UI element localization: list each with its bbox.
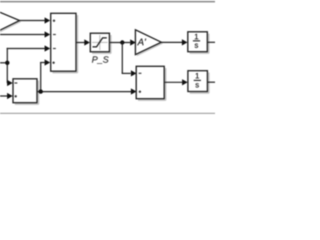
wire from left edge to Sum1 input 2 — [0, 31, 50, 37]
wire Sum2 output to Sum3 input 2, branch to Sum1 input 4 — [38, 59, 137, 94]
gain A2 labelled A' — [135, 30, 162, 56]
sum block Sum2 (inputs - +) — [13, 79, 39, 105]
wire A2 to integrator Int1 — [161, 39, 187, 45]
wire from left edge to Sum2 input 2 — [0, 93, 13, 99]
wire Sum1 to saturation P_S — [77, 39, 90, 45]
wire G1 to Sum1 input 1 — [20, 17, 51, 23]
junction on net at (7.3,62.8) — [5, 61, 9, 65]
wire Sum3 to integrator Int2 — [165, 79, 188, 85]
wire Int2 output — [208, 81, 216, 83]
label P_S — [92, 56, 109, 63]
sum block Sum3 (inputs - +) — [136, 66, 166, 100]
gain G1 (cropped at left edge) — [0, 12, 21, 33]
integrator Int1 (1/s) — [188, 32, 209, 54]
junction at (122.3,42.5) — [120, 40, 124, 44]
wire P_S to gain A2 — [110, 39, 136, 45]
saturation block P_S — [90, 33, 111, 53]
wire junction down to Sum3 input 1 — [122, 43, 137, 77]
wire net to Sum1 input 3 and Sum2 input 1 — [0, 45, 50, 86]
wire Int1 output — [208, 41, 216, 43]
integrator Int2 (1/s) — [188, 71, 209, 93]
junction at (40.7,91.6) — [39, 89, 43, 93]
sum block Sum1 (inputs + - - +) — [51, 13, 78, 73]
